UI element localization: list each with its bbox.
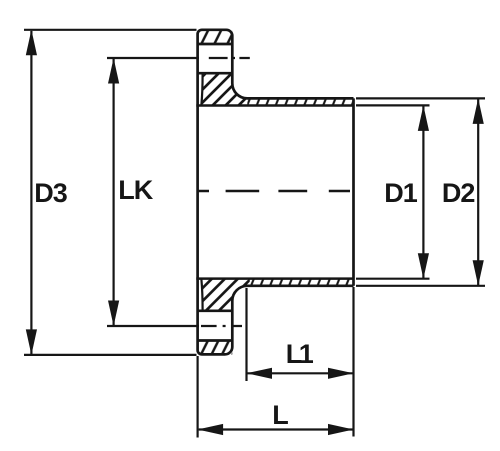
L arrow left xyxy=(198,424,224,435)
bolt hole top edge (lower hole) xyxy=(198,309,233,312)
D2 top extension line xyxy=(356,97,485,99)
main horizontal centerline (dashed) xyxy=(198,190,350,192)
L1 arrow right xyxy=(328,368,354,379)
L1 arrow left xyxy=(247,368,273,379)
raised face edge line (upper) xyxy=(201,74,202,105)
D2 dimension line xyxy=(477,99,479,285)
D2 bottom extension line xyxy=(356,285,485,287)
L1 dimension line xyxy=(248,372,353,374)
D3 dimension line xyxy=(30,31,32,354)
bore top line xyxy=(196,104,353,107)
svg-text:D3: D3 xyxy=(34,178,67,208)
D3 arrow top xyxy=(26,30,37,56)
upper bolt hole axis dash-dot line xyxy=(209,57,250,59)
D2 arrow top xyxy=(473,98,484,124)
L arrow right xyxy=(328,424,354,435)
LK arrow top xyxy=(108,58,119,84)
LK dimension line xyxy=(112,59,114,325)
raised face edge line (lower) xyxy=(201,279,202,310)
L dimension line xyxy=(199,428,353,430)
svg-text:D2: D2 xyxy=(442,178,475,208)
D3 top extension line xyxy=(24,29,197,31)
hatch region B: flange upper mid section with fillet wedge xyxy=(202,73,249,105)
L left extension line xyxy=(197,356,199,438)
upper bolt hole axis extension line xyxy=(107,57,199,59)
lower bolt hole axis dash-dot line xyxy=(201,325,242,327)
D3 arrow bottom xyxy=(26,329,37,355)
bolt hole bottom edge (upper hole) xyxy=(198,72,233,75)
D3 bottom extension line xyxy=(24,354,197,356)
hatch region F: flange bottom band xyxy=(198,341,233,355)
D1 dimension line xyxy=(422,106,424,278)
D1 top extension line xyxy=(356,104,430,106)
flange and pipe outline xyxy=(198,30,354,355)
pipe end extension line (right, for L1 and L) xyxy=(352,287,354,437)
lower bolt hole axis extension line xyxy=(107,325,199,327)
svg-text:L: L xyxy=(272,400,288,430)
pipe end edge xyxy=(352,98,355,285)
hatch region E: flange lower mid section with fillet wedge xyxy=(202,279,249,311)
hatch region A: flange top band xyxy=(198,30,233,44)
bolt hole top edge (upper hole) xyxy=(198,43,233,46)
svg-text:D1: D1 xyxy=(384,178,417,208)
L1 left extension line xyxy=(245,288,247,381)
D1 arrow top xyxy=(418,105,429,130)
D2 arrow bottom xyxy=(473,260,484,286)
hatch region D: pipe bottom wall xyxy=(247,279,353,285)
bolt hole bottom edge (lower hole) xyxy=(198,339,233,342)
D1 bottom extension line xyxy=(356,278,430,280)
bore bottom line xyxy=(196,277,353,280)
LK arrow bottom xyxy=(108,301,119,327)
svg-text:LK: LK xyxy=(118,175,153,205)
svg-text:L1: L1 xyxy=(286,339,314,369)
D1 arrow bottom xyxy=(418,253,429,279)
hatch region C: pipe top wall xyxy=(247,99,353,105)
